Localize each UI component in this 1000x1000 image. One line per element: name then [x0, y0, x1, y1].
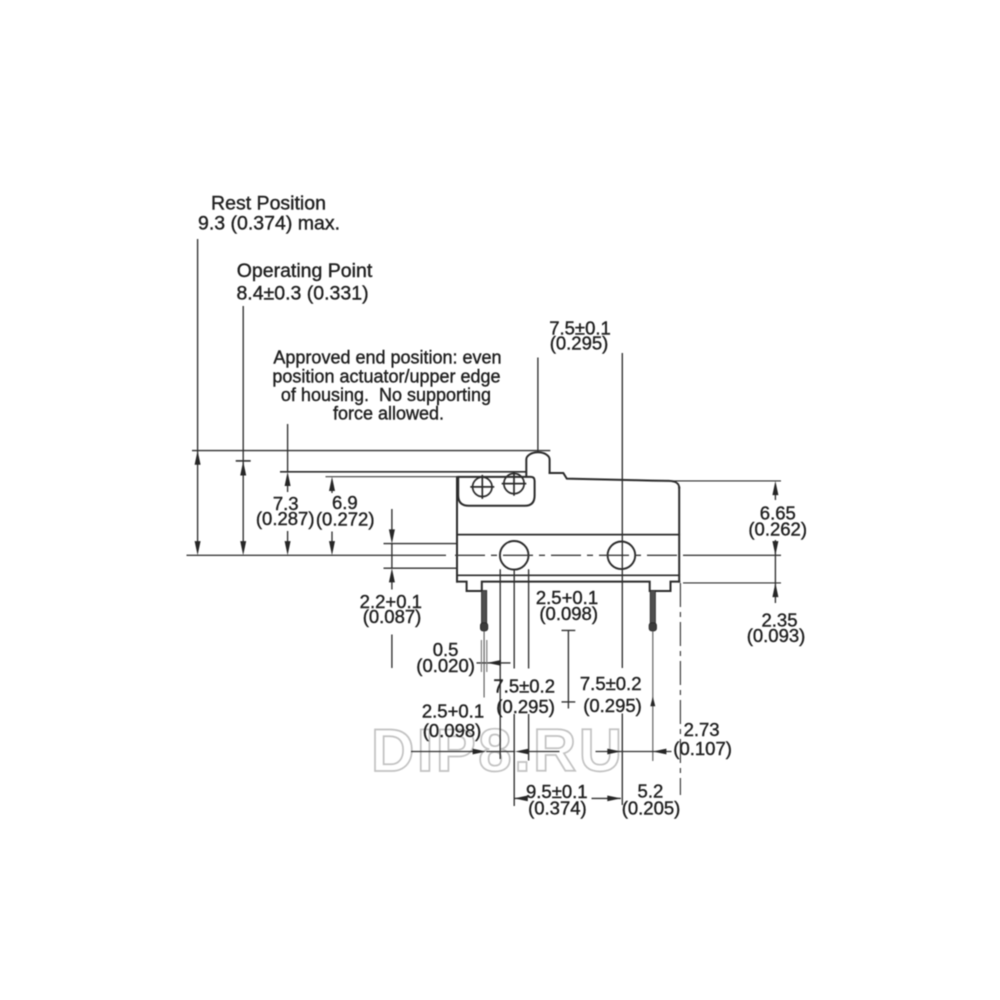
svg-text:DIP8.RU: DIP8.RU	[371, 717, 625, 784]
dim 7.5 top extension lines	[538, 353, 622, 805]
housing top edge extension line	[326, 476, 459, 478]
right 6.65 extension top	[658, 480, 781, 482]
rest position line (lever top at rest)	[192, 450, 550, 452]
housing bottom inner line	[457, 574, 679, 576]
dim 6.65 arrowheads	[772, 481, 778, 495]
svg-text:7.5±0.2: 7.5±0.2	[580, 673, 642, 694]
svg-text:(0.262): (0.262)	[748, 518, 807, 539]
svg-text:(0.098): (0.098)	[423, 720, 482, 741]
dim 2.73 arrowheads	[607, 749, 621, 755]
svg-text:(0.087): (0.087)	[363, 606, 422, 627]
dim 2.2 leader	[391, 509, 393, 668]
dimension lines	[192, 239, 781, 806]
rivet plate	[458, 477, 534, 506]
dim 9.5 arrowheads	[514, 796, 528, 802]
horizontal centerline	[187, 554, 447, 556]
housing top right edge with step	[550, 473, 680, 488]
svg-text:2.5+0.1: 2.5+0.1	[422, 701, 484, 722]
approved end position leader / dim 7.3	[287, 424, 289, 543]
svg-text:(0.107): (0.107)	[673, 738, 732, 759]
vertical centerline right edge	[679, 583, 681, 795]
dim 6.65 / 2.35 line	[774, 494, 776, 603]
dim 8.4 arrowheads	[240, 461, 246, 475]
dim 8.4 tick	[236, 460, 251, 462]
row 751 right dim 2.73	[596, 751, 672, 753]
svg-text:(0.295): (0.295)	[583, 695, 642, 716]
svg-text:7.5±0.2: 7.5±0.2	[493, 676, 555, 697]
mounting hole right	[608, 542, 636, 570]
svg-text:(0.020): (0.020)	[416, 655, 475, 676]
svg-text:force allowed.: force allowed.	[333, 404, 444, 424]
arrowheads	[195, 451, 779, 802]
row 751 left dim 2.5	[411, 751, 560, 753]
dim 8.4 leader	[242, 306, 244, 549]
housing bottom profile with feet	[457, 582, 679, 591]
svg-text:position actuator/upper edge: position actuator/upper edge	[272, 367, 500, 387]
plunger	[526, 452, 549, 476]
mounting hole left	[500, 541, 529, 570]
dim 2.35 arrowhead	[772, 583, 778, 597]
svg-text:Operating Point: Operating Point	[237, 260, 373, 282]
dim 2.2 extension lines	[384, 544, 458, 569]
center axis between holes	[562, 630, 576, 708]
right 2.35 extension bottom	[683, 582, 781, 584]
rivet 1	[470, 475, 494, 499]
svg-text:2.73: 2.73	[684, 719, 720, 740]
watermark DIP8.RU	[371, 717, 625, 784]
dim 2.5 left arrowheads	[473, 749, 487, 755]
rivet 2	[502, 472, 527, 496]
svg-text:8.4±0.3 (0.331): 8.4±0.3 (0.331)	[236, 283, 368, 305]
dim 6.9 stubs	[331, 489, 333, 544]
dim 0.5 arrowhead	[487, 660, 501, 666]
pin left edge extensions	[481, 640, 486, 672]
hole edge/center extensions	[500, 569, 528, 806]
small arrowhead on right pin extension	[650, 697, 655, 707]
dim 6.9 arrowheads	[329, 477, 335, 491]
svg-text:(0.205): (0.205)	[622, 797, 681, 818]
pin center extensions	[483, 632, 485, 698]
svg-text:9.3 (0.374) max.: 9.3 (0.374) max.	[198, 213, 340, 235]
dim 7.3 arrowheads	[285, 472, 291, 486]
housing right edge	[678, 488, 680, 582]
switch housing body outline	[457, 452, 679, 591]
row 798 dim 9.5 / 5.2	[514, 797, 621, 799]
svg-text:(0.093): (0.093)	[747, 625, 806, 646]
dim 2.2 arrowheads	[389, 529, 395, 543]
svg-text:(0.374): (0.374)	[528, 797, 587, 818]
dim 0.5 line	[477, 662, 511, 664]
terminal pin left	[480, 591, 487, 632]
svg-text:(0.287): (0.287)	[256, 508, 315, 529]
svg-text:(0.272): (0.272)	[316, 509, 375, 530]
svg-text:of housing. No supporting: of housing. No supporting	[281, 385, 491, 405]
terminal pin right	[649, 591, 656, 632]
housing left edge	[456, 477, 458, 582]
svg-text:(0.295): (0.295)	[496, 696, 555, 717]
svg-text:Rest Position: Rest Position	[211, 193, 326, 215]
housing seam line	[457, 534, 679, 536]
svg-text:(0.295): (0.295)	[550, 333, 609, 354]
dim 9.3 arrowheads	[195, 451, 201, 465]
svg-text:(0.098): (0.098)	[539, 603, 598, 624]
dim 9.3 leader	[197, 239, 199, 549]
svg-text:Approved end position: even: Approved end position: even	[273, 348, 501, 368]
lever arm	[280, 471, 527, 473]
